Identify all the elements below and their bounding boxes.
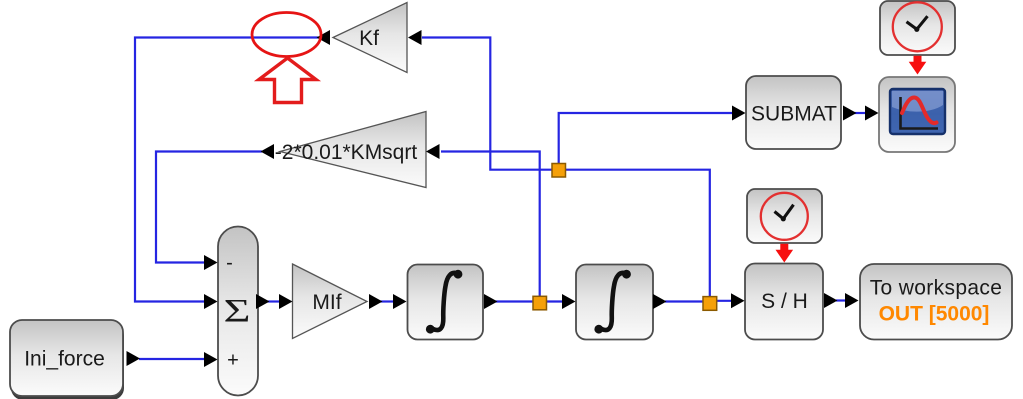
arrowhead sum output [256, 294, 270, 309]
arrowhead KMsqrt input [426, 144, 440, 159]
arrowhead MIf input [279, 294, 293, 309]
wire sum output to MIf [267, 300, 280, 302]
wire junction j2 to integrator 2 [545, 300, 562, 302]
arrowhead integrator 1 input [393, 294, 407, 309]
red activation arrow clock1 to scope [909, 56, 927, 75]
svg-text:Σ: Σ [224, 294, 251, 330]
gain Kf [333, 3, 407, 73]
svg-text:Kf: Kf [359, 27, 379, 50]
wire junction j1 up to SUBMAT input [559, 113, 732, 165]
svg-text:To workspace: To workspace [870, 277, 1003, 300]
svg-text:OUT [5000]: OUT [5000] [879, 303, 990, 326]
red block arrow annotation [259, 58, 316, 103]
arrowhead SUBMAT input [732, 106, 746, 121]
svg-text:S / H: S / H [761, 290, 808, 313]
wire junction j3 to S/H [714, 300, 731, 302]
red activation arrow clock2 to S/H [776, 244, 794, 263]
integrator 2 [576, 265, 653, 340]
arrowhead Ini_force output [127, 351, 141, 366]
wire KMsqrt output to sum - input [156, 152, 262, 263]
integrator 1 [408, 265, 484, 340]
clock block 2 (above S/H) [747, 189, 822, 243]
arrowhead integrator 2 input [562, 294, 576, 309]
block Ini_force [10, 320, 123, 396]
junction j2 [533, 296, 547, 310]
sum block (BIGSOM) [218, 227, 258, 396]
gain -2*0.01*KMsqrt [275, 112, 426, 188]
arrowhead KMsqrt output [261, 144, 275, 159]
svg-text:-2*0.01*KMsqrt: -2*0.01*KMsqrt [275, 141, 418, 164]
wire SUBMAT to scope [854, 112, 865, 114]
block S/H [745, 264, 823, 340]
svg-text:-: - [226, 252, 233, 274]
svg-text:+: + [227, 350, 239, 372]
svg-text:Ini_force: Ini_force [24, 348, 105, 371]
wire junction j2 up to KMsqrt input [441, 152, 540, 298]
svg-text:MIf: MIf [312, 291, 341, 314]
arrowhead SUBMAT output [843, 106, 857, 121]
wire junction j1 left and up to Kf input [422, 38, 553, 170]
wire MIf output to integrator 1 [380, 300, 394, 302]
arrowhead Kf output [317, 30, 331, 45]
arrowhead sum input plus [204, 352, 218, 367]
wire junction j3 up and left to junction j1 [565, 170, 710, 297]
arrowhead integrator 2 output [653, 294, 667, 309]
arrowhead sum input middle [204, 294, 218, 309]
arrowhead To workspace input [845, 293, 859, 308]
red ellipse annotation [252, 13, 321, 57]
arrowhead Kf input [408, 30, 422, 45]
block SUBMAT [746, 76, 841, 149]
block Ini_force shadow [11, 324, 124, 399]
clock block 1 (top right) [880, 1, 955, 55]
wire integrator 1 to junction j2 [495, 300, 536, 302]
junction j3 [703, 297, 717, 311]
wire S/H to To workspace [836, 299, 846, 301]
arrowhead MIf output [369, 294, 383, 309]
svg-text:SUBMAT: SUBMAT [751, 103, 837, 126]
wire integrator 2 to junction j3 [665, 300, 706, 302]
wire Kf output to sum middle input [135, 38, 318, 302]
scope block [879, 77, 955, 152]
wire Ini_force to sum + input [139, 358, 204, 360]
arrowhead integrator 1 output [484, 294, 498, 309]
junction j1 [552, 164, 566, 178]
block To workspace [860, 264, 1012, 340]
arrowhead S/H output [824, 293, 838, 308]
gain MIf [293, 264, 368, 339]
arrowhead sum input minus [204, 255, 218, 270]
arrowhead scope input [865, 106, 879, 121]
arrowhead S/H input [731, 293, 745, 308]
